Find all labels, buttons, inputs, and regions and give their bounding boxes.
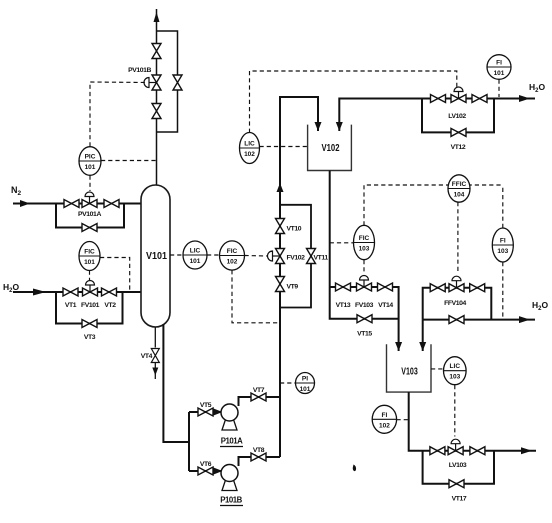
flow arrow into V102 left xyxy=(315,122,322,131)
svg-text:VT10: VT10 xyxy=(287,226,302,233)
pipe P101A suction xyxy=(189,411,222,413)
svg-text:N2: N2 xyxy=(11,185,22,197)
pipe N2 bypass xyxy=(56,204,124,228)
svg-text:101: 101 xyxy=(190,258,201,265)
svg-text:FFIC: FFIC xyxy=(452,181,467,188)
label P101A underline xyxy=(220,446,243,448)
svg-text:FV101: FV101 xyxy=(81,302,100,309)
svg-text:101: 101 xyxy=(85,164,96,171)
valve VT6 xyxy=(198,467,213,475)
valve N2 bypass valve xyxy=(82,224,97,232)
valve VT17 xyxy=(449,480,464,488)
svg-text:LIC: LIC xyxy=(190,248,201,255)
flow arrow H2O out top xyxy=(519,95,530,102)
svg-text:H2O: H2O xyxy=(532,300,548,312)
svg-text:FV103: FV103 xyxy=(355,302,374,309)
valve VT14 xyxy=(378,283,393,291)
signal line FIC102 flow tap xyxy=(232,270,279,323)
instrument PIC 101 xyxy=(79,147,101,176)
valve LV103 block 1 xyxy=(430,447,445,455)
pipe FV103 bypass xyxy=(330,287,399,319)
svg-text:PV101B: PV101B xyxy=(128,67,151,74)
svg-text:VT9: VT9 xyxy=(287,284,299,291)
svg-text:P101B: P101B xyxy=(220,496,242,505)
signal line PIC101 pressure tap xyxy=(101,160,157,162)
pipe V103 right inlet xyxy=(422,320,424,351)
svg-text:VT5: VT5 xyxy=(200,402,212,409)
valve VT7 xyxy=(251,393,266,401)
pipe P101B suction xyxy=(189,470,222,472)
control valve PV101A xyxy=(82,192,97,208)
svg-text:VT4: VT4 xyxy=(141,353,153,360)
pipe LV103 bypass xyxy=(423,451,494,484)
instrument LIC 101 xyxy=(183,241,207,269)
svg-text:VT3: VT3 xyxy=(84,334,96,341)
instrument FIC 102 xyxy=(220,241,245,270)
svg-text:104: 104 xyxy=(454,192,465,199)
label P101B underline xyxy=(220,505,243,507)
signal line LIC101 to FIC102 xyxy=(207,254,220,256)
svg-text:VT13: VT13 xyxy=(336,302,351,309)
svg-text:103: 103 xyxy=(449,374,460,381)
signal line LIC102 level tap xyxy=(260,146,308,148)
valve FFV104 bypass valve xyxy=(449,316,464,324)
control valve LV103 xyxy=(448,439,463,455)
signal line FI103 up xyxy=(502,185,504,228)
svg-text:V103: V103 xyxy=(401,367,418,378)
control valve LV102 xyxy=(451,87,466,103)
pipe V103 outlet line xyxy=(409,392,536,451)
valve VT2 xyxy=(102,288,117,296)
pipe LV102 line xyxy=(339,99,535,132)
signal line FIC101 to FV101 xyxy=(89,271,91,281)
svg-text:LIC: LIC xyxy=(244,141,255,148)
pipe V101 drain upper xyxy=(154,327,156,348)
svg-text:FFV104: FFV104 xyxy=(444,300,466,307)
instrument FIC 103 xyxy=(354,225,375,259)
pipe P101A discharge xyxy=(239,397,281,406)
signal line V101 level tap xyxy=(170,254,183,256)
flow arrow riser flow up xyxy=(277,183,284,192)
valve VT9 xyxy=(276,277,285,292)
signal line FIC101 flow tap xyxy=(100,258,130,292)
pipe N2 inlet xyxy=(13,203,142,205)
svg-text:FI: FI xyxy=(500,238,506,245)
signal line FIC103 to FV103 xyxy=(363,260,365,274)
pipe V101 drain lower xyxy=(154,363,156,379)
pipe FFV104 outlet to H2O xyxy=(423,319,535,321)
svg-text:VT15: VT15 xyxy=(357,331,372,338)
flow arrow outlet arrow xyxy=(521,447,532,454)
pipe vent line from V101 top xyxy=(156,9,158,185)
valve vent bypass valve xyxy=(173,75,182,90)
svg-text:VT1: VT1 xyxy=(65,302,77,309)
instrument FFIC 104 xyxy=(448,175,470,202)
control valve FV102 xyxy=(268,249,285,264)
flow arrow vent up xyxy=(154,12,160,22)
svg-text:VT12: VT12 xyxy=(451,144,466,151)
pipe pump riser to V102 xyxy=(280,97,318,457)
valve VT15 xyxy=(357,315,372,323)
flow arrow H2O in xyxy=(33,289,46,296)
svg-text:102: 102 xyxy=(227,259,238,266)
svg-text:103: 103 xyxy=(359,246,370,253)
flow arrow into P101B xyxy=(214,468,223,475)
instrument FIC 101 xyxy=(79,242,100,271)
svg-text:FIC: FIC xyxy=(227,248,238,255)
svg-text:FI: FI xyxy=(496,60,502,67)
signal line LIC102 to LV102 xyxy=(250,71,457,133)
signal line PIC101 to PV101B xyxy=(90,82,147,147)
valve FFV104 block 2 xyxy=(470,284,485,292)
flow arrow into P101A xyxy=(214,409,223,416)
signal line FIC103 to FFIC104 to FI103 xyxy=(364,185,503,225)
valve VT3 xyxy=(82,320,97,328)
control valve FFV104 xyxy=(449,276,464,292)
valve LV103 block 2 xyxy=(470,447,485,455)
control valve FV103 xyxy=(357,276,372,292)
valve VT10 xyxy=(276,219,285,234)
valve VT4 xyxy=(151,349,159,363)
svg-text:101: 101 xyxy=(494,70,505,77)
pipe FV103 line to V103 xyxy=(330,287,399,351)
svg-text:VT7: VT7 xyxy=(253,387,265,394)
valve VT8 xyxy=(251,453,266,461)
svg-text:PV101A: PV101A xyxy=(78,211,101,218)
signal line PIC101 to PV101A xyxy=(89,176,91,192)
tank V103 xyxy=(387,344,432,392)
svg-text:LV103: LV103 xyxy=(449,462,467,469)
instrument FI 103 xyxy=(492,228,513,262)
valve VT1 xyxy=(63,288,78,296)
valve LV102 block 1 xyxy=(431,95,446,103)
flow arrow drain xyxy=(152,368,158,376)
pipe LV102 bypass xyxy=(422,99,494,133)
control valve PV101B xyxy=(144,75,161,90)
valve VT13 xyxy=(336,283,351,291)
svg-text:FV102: FV102 xyxy=(287,255,306,262)
flow arrow H2O out mid xyxy=(519,316,530,323)
valve vent block upper xyxy=(152,44,161,59)
svg-text:PIC: PIC xyxy=(85,154,96,161)
svg-text:P101A: P101A xyxy=(221,437,243,446)
pipe H2O inlet xyxy=(13,291,142,293)
control valve FV101 xyxy=(83,281,98,297)
valve FFV104 block 1 xyxy=(430,284,445,292)
signal line FI102 tap xyxy=(397,419,409,421)
valve VT11 xyxy=(307,249,316,264)
flow arrow into V103 right xyxy=(419,342,426,351)
tank V102 xyxy=(308,125,352,171)
svg-text:PI: PI xyxy=(302,376,308,383)
valve LV102 block 2 xyxy=(472,95,487,103)
flow arrow into V102 right xyxy=(336,122,343,131)
signal line LIC103 to LV103 xyxy=(454,385,456,437)
signal line FI103 tap xyxy=(502,262,504,319)
svg-text:101: 101 xyxy=(300,386,311,393)
instrument PI 101 xyxy=(296,373,315,394)
pipe vent bypass loop xyxy=(157,31,178,132)
svg-text:H2O: H2O xyxy=(529,82,545,94)
pipe FFV104 header box xyxy=(423,288,492,320)
flow arrow into V103 left xyxy=(395,342,402,351)
pipe P101B discharge xyxy=(239,457,281,466)
signal line FI101 tap xyxy=(498,80,500,98)
pump P101B xyxy=(221,465,238,491)
vessel V101 xyxy=(141,185,170,327)
signal line PI101 tap xyxy=(280,382,295,384)
svg-text:FIC: FIC xyxy=(84,249,95,256)
signal line FIC103 flow tap xyxy=(330,242,354,244)
svg-text:101: 101 xyxy=(84,259,95,266)
svg-text:FIC: FIC xyxy=(359,235,370,242)
instrument LIC 103 xyxy=(444,357,467,385)
flow arrow N2 in xyxy=(20,200,30,207)
signal line FIC102 to FV102 xyxy=(245,255,269,258)
svg-text:VT6: VT6 xyxy=(200,461,212,468)
pipe V102 outlet xyxy=(329,171,331,288)
svg-text:VT2: VT2 xyxy=(104,302,116,309)
svg-text:VT17: VT17 xyxy=(452,496,467,503)
ink speck xyxy=(353,465,356,472)
svg-text:103: 103 xyxy=(497,248,508,255)
valve vent block lower xyxy=(152,104,161,119)
signal line FFIC104 to FFV104 xyxy=(457,202,459,274)
svg-text:LIC: LIC xyxy=(450,363,461,370)
pipe H2O bypass xyxy=(56,292,123,324)
svg-text:V101: V101 xyxy=(146,251,167,262)
svg-text:V102: V102 xyxy=(322,143,340,154)
pipe pump suction header xyxy=(188,412,190,471)
svg-text:VT11: VT11 xyxy=(314,255,329,262)
valve N2 block 1 xyxy=(64,200,79,208)
pipe FV102 bypass loop xyxy=(280,205,311,308)
signal line LIC103 level tap xyxy=(431,368,444,370)
svg-text:102: 102 xyxy=(379,422,390,429)
svg-text:LV102: LV102 xyxy=(448,113,466,120)
svg-text:VT8: VT8 xyxy=(253,447,265,454)
instrument FI 101 xyxy=(487,55,511,80)
svg-text:VT14: VT14 xyxy=(378,302,393,309)
svg-text:102: 102 xyxy=(244,151,255,158)
valve N2 block 2 xyxy=(104,200,119,208)
valve VT12 xyxy=(451,128,466,136)
svg-text:FI: FI xyxy=(382,412,388,419)
instrument FI 102 xyxy=(372,405,396,433)
valve VT5 xyxy=(198,408,213,416)
pipe V101 outlet down xyxy=(163,324,189,442)
pump P101A xyxy=(221,404,238,430)
instrument LIC 102 xyxy=(240,133,260,164)
